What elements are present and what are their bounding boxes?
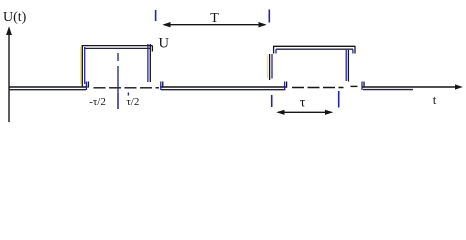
svg-text:-τ/2: -τ/2	[89, 96, 106, 108]
T dimension arrow (double headed)	[164, 24, 265, 26]
svg-text:τ: τ	[300, 95, 306, 110]
svg-text:t: t	[433, 92, 437, 107]
centre dashed marker line at t=0 inside pulse 1	[117, 53, 119, 109]
pulse 2 top bracket	[273, 46, 355, 53]
T measurement right tick	[268, 10, 270, 23]
tau dimension arrow (double headed)	[278, 111, 332, 113]
short dash before segment C	[351, 85, 358, 87]
y-axis	[8, 33, 10, 122]
hook at left end of segment B	[161, 82, 163, 91]
pulse 1 left edge	[81, 45, 85, 87]
pulse 2 right edge	[346, 50, 348, 82]
svg-text:U: U	[159, 36, 170, 52]
t-axis arrowhead	[455, 84, 463, 89]
svg-text:T: T	[210, 11, 219, 26]
t-axis segment A (doubled, left of pulse 1)	[9, 87, 88, 90]
hook at end of segment A	[86, 82, 88, 91]
pulse 1 right edge	[148, 44, 150, 82]
tau measurement right tick	[338, 91, 340, 108]
t-axis segment C (doubled after pulse 2, axis continues to arrow)	[362, 87, 456, 90]
y-axis arrowhead	[6, 26, 12, 35]
T measurement left tick	[155, 10, 157, 21]
hook at start of segment C	[362, 82, 364, 91]
pulse 1 top	[82, 46, 153, 52]
stray small mark above tau/2	[127, 93, 129, 96]
dashed axis under pulse 1	[94, 87, 160, 89]
tau measurement left tick	[271, 95, 273, 107]
pulse 2 left edge	[267, 54, 272, 80]
dashed axis under pulse 2	[292, 87, 344, 89]
svg-text:U(t): U(t)	[3, 10, 27, 25]
t-axis segment B (doubled, between pulses)	[160, 87, 287, 90]
svg-text:τ/2: τ/2	[126, 96, 139, 108]
hook at right end of segment B	[285, 82, 287, 91]
